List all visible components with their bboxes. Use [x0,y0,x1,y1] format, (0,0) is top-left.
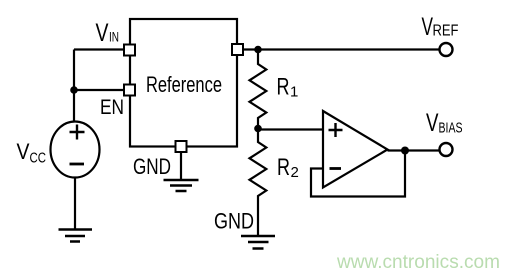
resistor R1 [250,50,267,129]
wire EN [74,89,124,91]
svg-text:1: 1 [290,84,298,101]
svg-text:V: V [422,13,434,41]
node R1 top [254,46,262,54]
wire VCC to ground [74,178,76,230]
wire VREF [243,48,439,50]
wire op-amp output [388,149,440,151]
svg-text:IN: IN [109,29,119,45]
wire VIN [74,48,124,50]
ground below R2 [241,236,275,249]
op-amp U2 [323,111,388,188]
svg-text:R: R [277,74,290,101]
wire VCC top [73,90,75,122]
svg-text:REF: REF [433,23,459,40]
pin VIN [124,45,135,56]
wire GND pin stub [180,152,182,179]
pin EN [124,85,135,96]
svg-text:www.cntronics.com: www.cntronics.com [336,252,500,273]
ground below reference block [164,180,199,191]
svg-text:V: V [17,139,30,164]
pin OUT [232,44,243,55]
svg-text:CC: CC [30,151,47,167]
node junction at VCC [70,86,78,94]
voltage source VCC [51,122,100,178]
wire feedback loop [311,152,405,197]
svg-text:V: V [426,109,439,137]
op-amp minus input marker [330,167,342,170]
wire divider to op-amp [258,128,323,130]
svg-text:2: 2 [291,164,299,181]
svg-text:GND: GND [133,154,171,179]
reference block U1 [130,19,237,147]
wire VIN to EN junction vertical [73,50,75,91]
ground below VCC [59,230,93,242]
svg-text:GND: GND [214,209,254,234]
resistor R2 [250,129,267,237]
terminal VREF [440,43,453,56]
node divider [254,125,262,133]
svg-text:EN: EN [100,96,124,119]
terminal VBIAS [440,143,453,156]
svg-text:BIAS: BIAS [439,120,463,137]
node output [401,147,409,155]
pin GND [176,141,187,152]
svg-text:Reference: Reference [146,72,222,97]
minus sign of VCC [70,163,85,166]
op-amp plus input marker [329,123,343,137]
svg-text:R: R [277,154,290,181]
svg-text:V: V [96,19,109,47]
plus sign of VCC [70,125,85,140]
